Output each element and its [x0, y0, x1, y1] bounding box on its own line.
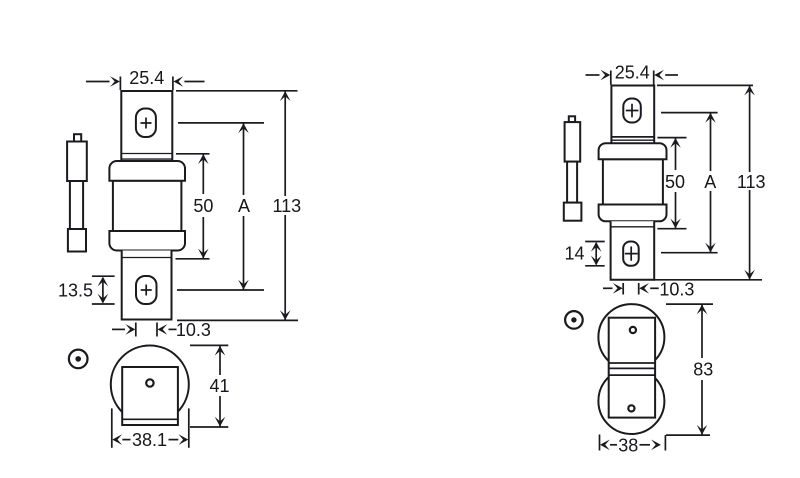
dim 25.4 right tail line	[184, 81, 204, 83]
dim 113R down arrowhead	[744, 270, 755, 280]
svg-text:83: 83	[693, 360, 713, 380]
svg-text:38: 38	[618, 435, 638, 455]
dim 50 up arrowhead	[198, 154, 209, 164]
dim 41 line lower	[219, 396, 221, 427]
dim 83 up arrowhead	[697, 305, 708, 315]
dim 113R line lower	[749, 190, 751, 280]
right fuse bottom tag	[611, 221, 655, 279]
dim 50 line lower	[202, 217, 204, 258]
svg-text:41: 41	[209, 376, 229, 396]
dim 25.4 left arrowhead	[110, 76, 120, 87]
ext line R A bottom	[661, 252, 718, 254]
dim 38.1 right arrowhead	[179, 434, 189, 445]
dim 14 line	[595, 243, 597, 265]
dim 38.1 left line	[122, 439, 130, 441]
ext line R 50 top	[657, 137, 686, 139]
ext line 50 top	[176, 153, 210, 155]
ext line A bottom	[177, 289, 264, 291]
dim 25.4 right arrowhead	[173, 76, 183, 87]
dim 41 down arrowhead	[215, 417, 226, 427]
left fuse bottom slot cross	[141, 285, 152, 296]
bottom view R tag rectangle	[609, 318, 655, 418]
dim 113 up arrowhead	[280, 91, 291, 101]
dim 25.4R right tick	[653, 71, 655, 85]
left striker knob	[74, 134, 81, 141]
dim 25.4R left line	[586, 74, 600, 76]
left fuse top tag cap-edge line	[121, 158, 172, 160]
dim 25.4R left tick	[610, 71, 612, 85]
dim 25.4 right tick	[172, 77, 174, 91]
svg-text:113: 113	[737, 172, 766, 192]
dim 50R up arrowhead	[670, 138, 681, 148]
dim 38.1 right tick	[188, 408, 190, 447]
dim 38 left line	[610, 444, 617, 446]
dim 38.1 right line	[169, 439, 179, 441]
left fuse bottom tag	[122, 251, 172, 320]
ext line R 50 bottom	[657, 228, 686, 230]
left fuse top cap	[109, 161, 185, 181]
svg-text:50: 50	[193, 196, 213, 216]
dim 113 line upper	[284, 91, 286, 196]
dim 10.3 right arrowhead	[158, 324, 168, 335]
bottom view barrel circle	[111, 346, 189, 424]
right striker knob	[569, 116, 575, 122]
dim 41 bottom tick	[190, 426, 228, 428]
right fuse top cap	[599, 143, 667, 159]
dim 13.5 bottom tick	[92, 303, 115, 305]
bottom view R lower circle	[598, 368, 664, 434]
bottom view R mid line 3	[609, 374, 655, 376]
right fuse bottom slot	[623, 242, 639, 266]
dim 14 down arrowhead	[591, 256, 602, 266]
dim 13.5 down arrowhead	[98, 294, 109, 304]
dim 83 bottom ext line	[666, 434, 710, 436]
right fuse top tag body-face line	[611, 136, 654, 138]
dim 14 bottom tick	[585, 265, 605, 267]
right fuse top tag	[611, 86, 654, 144]
ext line R A top	[661, 112, 718, 114]
dim 50 line upper	[202, 154, 204, 194]
ext line R 113 bottom	[654, 279, 762, 281]
dim A down arrowhead	[238, 280, 249, 290]
dim 50R down arrowhead	[670, 219, 681, 229]
right fuse barrel	[603, 159, 663, 204]
dim 10.3R left line	[603, 287, 613, 289]
dim 25.4R right arrowhead	[654, 70, 664, 81]
right end-on striker symbol dot	[571, 317, 576, 322]
right fuse bottom cap	[599, 205, 667, 222]
right end-on striker symbol ring	[565, 311, 583, 329]
dim 83 line lower	[701, 380, 703, 435]
dim 83 down arrowhead	[697, 425, 708, 435]
dim 14 up arrowhead	[591, 242, 602, 252]
dim 38.1 left tick	[111, 408, 113, 447]
bottom view R upper circle	[598, 304, 664, 370]
right striker body	[565, 122, 581, 162]
dim 10.3R left arrowhead	[613, 283, 623, 294]
dim 41 line upper	[219, 346, 221, 375]
dim 25.4 left arrow line	[86, 81, 110, 83]
svg-text:10.3: 10.3	[659, 280, 694, 300]
dim 10.3 left line	[112, 328, 125, 330]
dim 14 top tick	[585, 241, 605, 243]
ext line 113 bottom	[177, 319, 298, 321]
left fuse bottom tag body-face line	[122, 257, 172, 259]
dim AR line upper	[710, 113, 712, 171]
bottom view tag edge line	[122, 418, 178, 420]
dim 10.3R right tick	[638, 283, 640, 295]
ext line 50 bottom	[176, 258, 210, 260]
dim 50R line upper	[675, 138, 677, 170]
left end-on striker symbol ring	[69, 350, 88, 369]
dim 41 top tick	[190, 344, 228, 346]
dim 25.4 left tick	[119, 77, 121, 91]
dim 10.3 tail line	[169, 328, 177, 330]
left fuse barrel	[113, 181, 181, 231]
dim A line lower	[243, 216, 245, 290]
dim 38 left tick	[599, 435, 601, 451]
svg-text:14: 14	[564, 243, 584, 263]
bottom view R upper hole	[630, 327, 636, 333]
dim A line upper	[243, 123, 245, 195]
dim 113 down arrowhead	[280, 310, 291, 320]
dim 38 left arrowhead	[600, 440, 610, 451]
bottom view R mid line 1	[609, 362, 655, 364]
bottom view center hole	[146, 379, 153, 386]
dim 38 right arrowhead	[651, 440, 661, 451]
ext line R tag top	[657, 84, 753, 86]
dim 10.3 right tick	[156, 323, 158, 337]
dim 10.3R tail line	[650, 287, 659, 289]
dim 25.4R tail line	[665, 74, 678, 76]
svg-text:A: A	[704, 172, 716, 192]
dim 113R up arrowhead	[744, 86, 755, 96]
dim A up arrowhead	[238, 123, 249, 133]
dim 83 top ext line	[666, 303, 713, 305]
dim 25.4R left arrowhead	[601, 70, 611, 81]
dim 13.5 line	[102, 278, 104, 302]
right striker stem	[567, 162, 577, 203]
right striker foot	[564, 203, 582, 221]
left end-on striker symbol dot	[75, 356, 81, 362]
dim 50R line lower	[675, 192, 677, 228]
left fuse top slot cross	[141, 118, 152, 129]
dim 10.3R left tick	[622, 283, 624, 295]
dim AR up arrowhead	[705, 113, 716, 123]
dim 41 up arrowhead	[215, 346, 226, 356]
ext line tag top	[176, 90, 298, 92]
left fuse bottom slot	[136, 276, 157, 304]
dim 10.3R right arrowhead	[639, 283, 649, 294]
bottom view R mid line 2	[609, 367, 655, 369]
dim 13.5 up arrowhead	[98, 277, 109, 287]
dim 38 right line	[640, 444, 651, 446]
dim 113 line lower	[284, 215, 286, 320]
dim 38.1 left arrowhead	[112, 434, 122, 445]
right fuse top slot cross	[626, 104, 639, 118]
dim 38 right tick	[664, 435, 666, 450]
right fuse top tag cap-edge line	[611, 139, 654, 141]
dim 83 line upper	[701, 305, 703, 359]
left striker body	[67, 142, 87, 182]
dim 10.3 left arrowhead	[126, 324, 136, 335]
dim AR line lower	[710, 191, 712, 252]
svg-text:25.4: 25.4	[129, 68, 164, 88]
dim 113R line upper	[749, 86, 751, 172]
svg-text:10.3: 10.3	[176, 320, 211, 340]
left fuse top slot	[136, 109, 156, 138]
svg-text:A: A	[238, 196, 250, 216]
right fuse bottom slot cross	[625, 247, 638, 261]
dim 13.5 top tick	[92, 275, 115, 277]
svg-text:38.1: 38.1	[132, 430, 167, 450]
bottom view R lower hole	[628, 405, 634, 411]
svg-text:13.5: 13.5	[58, 281, 93, 301]
left fuse top tag body-face line	[121, 153, 172, 155]
right fuse bottom tag body-face line	[611, 226, 655, 228]
svg-text:50: 50	[665, 172, 685, 192]
ext line A top	[178, 122, 264, 124]
right fuse top slot	[623, 99, 641, 123]
dim 10.3 left tick	[135, 323, 137, 337]
bottom view tag square	[122, 367, 178, 425]
left striker stem	[70, 181, 83, 229]
dim 50 down arrowhead	[198, 249, 209, 259]
svg-text:113: 113	[272, 196, 301, 216]
left striker foot	[68, 229, 86, 252]
svg-text:25.4: 25.4	[615, 63, 650, 83]
left fuse bottom cap	[109, 231, 185, 251]
left fuse top tag	[121, 91, 172, 161]
dim AR down arrowhead	[705, 243, 716, 253]
